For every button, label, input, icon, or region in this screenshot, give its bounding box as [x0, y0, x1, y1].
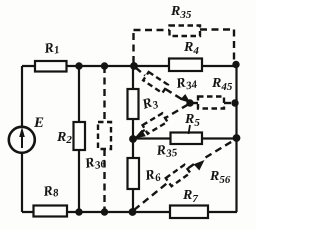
svg-text:R3: R3 — [140, 94, 161, 115]
svg-text:R45: R45 — [211, 76, 233, 93]
svg-text:R2: R2 — [56, 130, 72, 146]
svg-text:R8: R8 — [41, 183, 59, 201]
svg-text:R7: R7 — [182, 188, 198, 205]
svg-text:R1: R1 — [42, 40, 60, 58]
svg-text:R35: R35 — [170, 4, 192, 21]
svg-text:R5: R5 — [184, 112, 200, 129]
svg-text:R56: R56 — [209, 169, 231, 186]
svg-text:R34: R34 — [174, 74, 198, 95]
svg-text:R6: R6 — [143, 167, 162, 187]
svg-text:R4: R4 — [183, 40, 199, 57]
svg-text:E: E — [33, 115, 44, 131]
svg-text:R36: R36 — [83, 153, 108, 174]
